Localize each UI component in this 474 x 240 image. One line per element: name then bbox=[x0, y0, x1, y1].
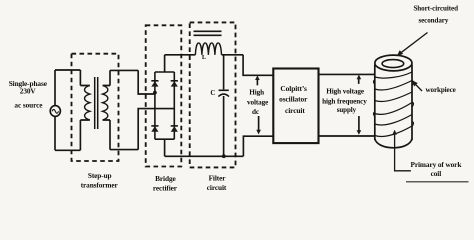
arrow: to primary of work coil bbox=[395, 134, 411, 171]
inductor core lines bbox=[194, 31, 222, 35]
workpiece top ellipse bbox=[375, 55, 412, 71]
diode D3 (lower left) bbox=[151, 125, 158, 127]
diode D2 (upper right) bbox=[171, 80, 178, 82]
label: High voltage dc bbox=[247, 88, 268, 116]
dashed box: bridge rectifier bbox=[146, 25, 182, 166]
svg-text:oscillator: oscillator bbox=[279, 94, 308, 103]
label: Short-circuited secondary bbox=[413, 5, 458, 25]
workpiece cylinder body bbox=[375, 65, 412, 141]
svg-text:C: C bbox=[210, 90, 215, 97]
svg-text:Filter: Filter bbox=[209, 173, 227, 182]
wire: secondary loop left/top/bottom bbox=[109, 70, 111, 149]
wire: choke to output / cap tap bbox=[222, 54, 244, 56]
svg-text:Short-circuited: Short-circuited bbox=[413, 5, 458, 13]
arrow: high voltage dc (down) bbox=[258, 116, 260, 130]
svg-text:high frequency: high frequency bbox=[322, 98, 367, 106]
arrow: to short-circuited secondary bbox=[400, 33, 428, 54]
capacitor C wire top bbox=[223, 55, 225, 90]
bridge rectifier rails and bars bbox=[155, 72, 174, 139]
diode D1 (upper left) bbox=[151, 80, 158, 82]
coil wrap hooks on left edge bbox=[373, 80, 374, 116]
wire: primary loop bottom bbox=[55, 149, 80, 151]
inductor L (filter choke) bbox=[195, 43, 221, 55]
diode D4 (lower right) bbox=[171, 125, 178, 127]
svg-text:secondary: secondary bbox=[418, 16, 448, 24]
wire: bridge DC+ stub bbox=[164, 55, 166, 72]
arrow: to workpiece bbox=[414, 83, 422, 91]
arrow: hf supply (up) bbox=[358, 78, 360, 84]
svg-text:voltage: voltage bbox=[247, 98, 268, 106]
svg-text:workpiece: workpiece bbox=[425, 86, 455, 94]
svg-text:transformer: transformer bbox=[81, 180, 119, 189]
wire: primary loop top bbox=[55, 69, 80, 71]
svg-text:ac source: ac source bbox=[14, 100, 43, 109]
arrow: high voltage dc (up) bbox=[256, 79, 258, 86]
wire: filter bottom jog to oscillator bbox=[243, 136, 273, 156]
arrow: hf supply (down) bbox=[358, 116, 360, 131]
wire: primary loop left (broken by source) bbox=[54, 70, 56, 150]
svg-text:Bridge: Bridge bbox=[155, 174, 176, 183]
svg-text:coil: coil bbox=[431, 169, 442, 178]
underline below label bbox=[406, 181, 469, 183]
wire: oscillator to work coil bottom bbox=[319, 135, 376, 137]
svg-text:Primary of work: Primary of work bbox=[411, 160, 463, 169]
svg-text:supply: supply bbox=[337, 106, 357, 114]
ac source V1 bbox=[50, 106, 60, 117]
op box: Colpitt's oscillator bbox=[273, 69, 318, 144]
svg-text:High voltage: High voltage bbox=[326, 88, 364, 96]
svg-text:Colpitt’s: Colpitt’s bbox=[280, 84, 307, 93]
wire: oscillator to work coil top bbox=[319, 73, 376, 75]
wire: bottom bus through filter bbox=[165, 155, 244, 157]
svg-text:circuit: circuit bbox=[207, 183, 227, 192]
svg-text:230V: 230V bbox=[20, 87, 37, 96]
label: Filter circuit bbox=[207, 173, 227, 191]
svg-text:rectifier: rectifier bbox=[153, 184, 178, 193]
label: High voltage high frequency supply bbox=[322, 88, 367, 115]
wire: primary loop right bbox=[79, 70, 81, 150]
label: Single-phase 230V ac source bbox=[9, 79, 48, 109]
workpiece inner bore ellipse bbox=[382, 60, 404, 68]
wire: bridge to choke bbox=[165, 54, 196, 56]
transformer T1 secondary winding bbox=[103, 86, 110, 121]
dashed box: filter circuit bbox=[190, 22, 236, 167]
node: AC1 junction bbox=[153, 91, 157, 95]
svg-text:dc: dc bbox=[252, 108, 260, 116]
svg-text:L: L bbox=[202, 54, 206, 61]
svg-text:High: High bbox=[249, 88, 264, 96]
capacitor C bbox=[219, 89, 229, 91]
dashed box: step-up transformer bbox=[72, 54, 119, 161]
svg-text:Step-up: Step-up bbox=[88, 171, 112, 180]
transformer T1 core bbox=[95, 77, 98, 129]
wire: secondary to bridge AC input 2 bbox=[138, 109, 174, 150]
wire: bridge DC- stub bbox=[164, 139, 166, 156]
primary work coil turns bbox=[375, 72, 412, 78]
capacitor C wire bottom bbox=[223, 96, 225, 156]
wire: filter top jog to oscillator bbox=[243, 55, 273, 76]
label: Step-up transformer bbox=[81, 171, 119, 190]
label: Bridge rectifier bbox=[153, 174, 178, 193]
node: cap bottom junction bbox=[222, 154, 226, 158]
label: Primary of work coil bbox=[411, 160, 463, 178]
coil wrap hooks on right edge bbox=[412, 81, 414, 127]
transformer T1 primary winding bbox=[80, 86, 89, 121]
svg-text:circuit: circuit bbox=[285, 106, 305, 115]
wire: secondary to bridge AC input 1 bbox=[138, 70, 155, 94]
